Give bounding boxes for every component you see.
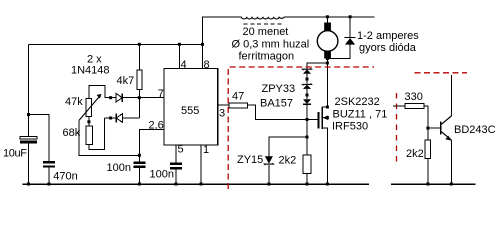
- potentiometer 47k: [65, 86, 111, 121]
- svg-text:10uF: 10uF: [3, 148, 27, 160]
- svg-text:7: 7: [158, 88, 164, 100]
- svg-text:ZPY33: ZPY33: [262, 83, 296, 95]
- junction dot motor bottom: [326, 57, 329, 60]
- svg-text:47k: 47k: [65, 96, 83, 108]
- wire pin 3: [218, 104, 229, 106]
- ground rail left: [23, 183, 369, 185]
- diode D1 1N4148 top: [109, 93, 164, 102]
- junction dot pin 4 tap: [178, 43, 181, 46]
- inductor L1: [203, 17, 375, 63]
- motor M: [317, 17, 338, 107]
- wire pot wiper to pin 2,6 node: [79, 120, 139, 155]
- junction dot ground 470n: [47, 183, 50, 186]
- junction dot pot bottom: [87, 120, 90, 123]
- resistor R2 2k2: [279, 155, 312, 186]
- junction dot zener branch: [326, 62, 329, 65]
- svg-text:IRF530: IRF530: [332, 121, 368, 133]
- label 2 x 1N4148: [71, 54, 110, 77]
- capacitor C4 100n: [150, 163, 183, 186]
- svg-text:1-2 amperes: 1-2 amperes: [357, 30, 419, 42]
- wire pin 4: [178, 44, 180, 68]
- svg-text:8: 8: [204, 59, 210, 71]
- wire pin 5: [175, 145, 177, 162]
- svg-text:5: 5: [178, 143, 184, 155]
- svg-text:BUZ11 , 71: BUZ11 , 71: [333, 109, 388, 121]
- wire gate node down: [306, 120, 308, 156]
- svg-text:1: 1: [203, 144, 209, 156]
- capacitor C1 10uF: [3, 137, 37, 160]
- wire 470n branch: [29, 115, 49, 162]
- svg-text:100n: 100n: [150, 169, 174, 181]
- junction dot ground pin 1: [200, 183, 203, 186]
- svg-text:4k7: 4k7: [117, 75, 135, 87]
- svg-text:ZY15: ZY15: [237, 154, 263, 166]
- resistor R1 47: [229, 91, 248, 109]
- svg-text:555: 555: [181, 105, 199, 117]
- capacitor C3 100n: [107, 155, 146, 185]
- svg-text:20 menet: 20 menet: [243, 26, 289, 38]
- svg-text:47: 47: [232, 91, 244, 103]
- wire pin 2,6: [139, 130, 163, 156]
- svg-text:2k2: 2k2: [279, 155, 297, 167]
- junction dot 470n branch: [27, 113, 30, 116]
- svg-text:470n: 470n: [53, 171, 77, 183]
- ground rail right: [391, 183, 476, 185]
- junction dot ZY15 branch: [306, 136, 309, 139]
- svg-text:2SK2232: 2SK2232: [335, 96, 380, 108]
- transistor Q1 MOSFET: [318, 96, 387, 184]
- wire ZY15 branch: [269, 137, 307, 156]
- resistor R4 2k2: [406, 128, 430, 185]
- svg-text:BD243C: BD243C: [454, 124, 496, 136]
- svg-text:BA157: BA157: [260, 97, 293, 109]
- svg-text:330: 330: [405, 91, 423, 103]
- svg-text:ferritmagon: ferritmagon: [239, 51, 295, 63]
- svg-text:3: 3: [219, 108, 225, 120]
- IC U1 555: [149, 59, 226, 156]
- junction dot gate node: [306, 118, 309, 121]
- wire pin 1: [200, 145, 202, 184]
- wire 68k bottom to D2: [89, 118, 105, 149]
- junction dot 4k7 tap: [138, 43, 141, 46]
- svg-text:1N4148: 1N4148: [71, 65, 110, 77]
- wire base: [428, 127, 441, 129]
- svg-text:gyors dióda: gyors dióda: [359, 42, 417, 54]
- red dashed box MOSFET block: [228, 67, 374, 189]
- wire left vertical: [28, 44, 30, 184]
- capacitor C2 470n: [43, 161, 78, 184]
- wire D2 right jog up to pin 7 node: [138, 98, 140, 118]
- junction dot pin 7 node: [138, 96, 141, 99]
- diode freewheel 1N5400: [327, 17, 419, 59]
- resistor 68k: [63, 126, 93, 144]
- zener ZPY33 chain: [262, 63, 328, 97]
- junction dot ground source: [326, 183, 329, 186]
- wire pot bottom: [88, 117, 90, 127]
- red dashed separator BD243C block: [397, 73, 468, 163]
- svg-text:68k: 68k: [63, 127, 81, 139]
- resistor 4k7: [117, 44, 143, 97]
- svg-text:Ø 0,3 mm huzal: Ø 0,3 mm huzal: [232, 39, 310, 51]
- diode D2 1N4148 bottom: [105, 114, 140, 123]
- zener ZY15: [237, 154, 273, 186]
- svg-text:2,6: 2,6: [149, 120, 164, 132]
- junction dot pin 2,6 node: [138, 154, 141, 157]
- junction dot ground 10uF: [27, 183, 30, 186]
- transistor Q2 BD243C: [441, 75, 496, 186]
- wire top supply rail: [29, 43, 203, 45]
- junction dot motor tap: [326, 15, 329, 18]
- resistor R3 330: [393, 91, 428, 128]
- wire pin 8: [202, 44, 204, 68]
- junction dot pin 8 / inductor: [201, 43, 204, 46]
- wire 47 to gate: [247, 105, 318, 119]
- junction dot freewheel diode tap: [349, 15, 352, 18]
- svg-text:100n: 100n: [107, 162, 131, 174]
- junction dot base node: [426, 127, 429, 130]
- svg-text:4: 4: [181, 59, 187, 71]
- svg-text:2k2: 2k2: [406, 148, 424, 160]
- diode BA157: [260, 95, 311, 120]
